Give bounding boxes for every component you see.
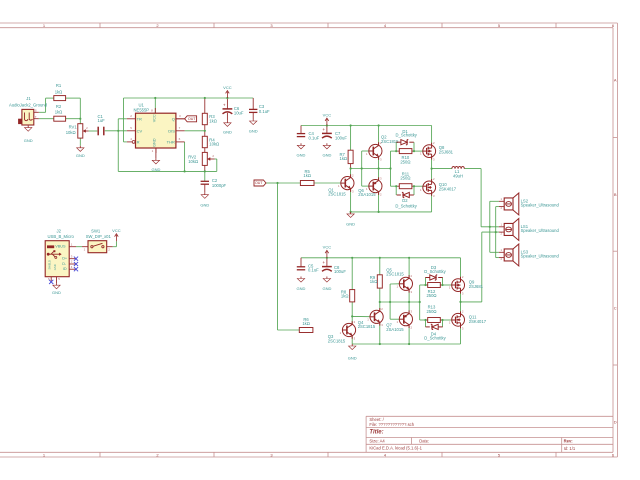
svg-text:D_Schottky: D_Schottky [424,269,446,274]
ground [24,126,33,144]
svg-text:J1: J1 [26,96,31,101]
wire [39,98,54,112]
power VCC [223,85,232,98]
wire [252,98,254,109]
svg-text:AudioJack2_Ground: AudioJack2_Ground [9,103,48,108]
svg-text:GND: GND [297,152,306,157]
wire [184,142,186,172]
resistor R1 [54,83,66,101]
svg-text:R1: R1 [56,83,62,88]
svg-text:D_Schottky: D_Schottky [395,133,417,138]
svg-text:NE555P: NE555P [134,108,150,113]
svg-text:+: + [322,127,325,132]
power VCC [112,228,121,241]
svg-text:GND: GND [297,286,306,291]
resistor R4 [202,136,219,147]
svg-text:1kΩ: 1kΩ [55,90,63,95]
svg-text:GND: GND [346,222,355,227]
svg-text:+: + [322,260,325,265]
junction [361,167,363,169]
wire [379,323,381,344]
power VCC [323,112,332,125]
junction [326,257,328,259]
wire [278,183,300,330]
wire [408,326,410,344]
junction [326,124,328,126]
wire [154,98,156,113]
wire [89,130,98,132]
junction [204,97,206,99]
resistor R6 [299,317,313,333]
junction [154,97,156,99]
speaker LS2 Speaker_Ultrasound [499,193,560,215]
capacitor C7 [322,127,347,140]
wire [378,126,380,145]
wire [396,142,414,151]
wire [426,278,443,286]
svg-text:Date:: Date: [419,439,429,444]
svg-text:250Ω: 250Ω [400,159,410,164]
wire [414,185,423,187]
wire [185,130,205,132]
transistor Q9 2SJ681 [449,275,484,296]
wire [124,98,127,142]
no-connect [74,257,78,261]
ground [151,158,160,172]
wire: speaker bus A [490,201,499,252]
wire [431,126,433,145]
svg-text:OUT: OUT [255,181,263,185]
resistor R9 [370,275,383,288]
svg-text:250Ω: 250Ω [400,176,410,181]
svg-text:GND: GND [322,286,331,291]
ground [297,143,306,157]
power VCC [323,245,332,258]
wire [117,119,119,172]
junction [408,301,410,303]
svg-text:250Ω: 250Ω [426,293,436,298]
wire [351,337,353,344]
svg-text:ID: ID [63,267,67,271]
speaker LS1 Speaker_Ultrasound [499,218,560,240]
svg-text:VCC: VCC [112,228,121,233]
junction [350,167,352,169]
wire [66,118,81,120]
svg-text:GND: GND [151,167,160,172]
svg-text:2SC1815: 2SC1815 [381,139,399,144]
wire: drain tie lower [460,292,462,314]
svg-text:GND: GND [52,290,61,295]
wire: bottom feedback line [118,170,217,172]
wire: D/R bus upper [391,151,397,186]
ground [223,121,232,135]
svg-text:Title:: Title: [369,429,383,435]
svg-text:GND: GND [53,264,57,270]
wire [460,258,462,279]
svg-text:2SK4017: 2SK4017 [439,187,457,192]
wire: base bus [362,151,369,186]
svg-text:OUT: OUT [188,117,196,121]
svg-text:1kΩ: 1kΩ [340,156,348,161]
junction [276,182,278,184]
svg-text:D_Schottky: D_Schottky [395,203,417,208]
wire [414,150,423,152]
svg-text:0.1uF: 0.1uF [259,109,270,114]
svg-text:250Ω: 250Ω [426,309,436,314]
resistor R7 [340,150,354,163]
svg-text:Rev:: Rev: [564,438,573,443]
junction [378,167,380,169]
wire: drain tie upper [431,158,433,181]
svg-text:TR: TR [137,116,142,121]
wire [326,126,328,134]
wire [66,98,81,119]
junction [379,257,381,259]
resistor R5 [300,169,314,186]
svg-text:GND: GND [24,138,33,143]
wire [460,326,462,344]
svg-text:10kΩ: 10kΩ [188,159,198,164]
svg-text:2SJ681: 2SJ681 [469,284,484,289]
wire [350,189,352,212]
svg-text:1kΩ: 1kΩ [370,279,378,284]
junction [408,257,410,259]
svg-text:VBUS: VBUS [55,245,66,249]
junction [395,150,397,152]
wire [204,148,206,153]
wire [351,258,353,290]
ground [200,193,209,208]
junction [350,211,352,213]
ground [346,212,355,227]
svg-text:U1: U1 [139,102,145,107]
wire [378,192,380,212]
wire: node line lower [380,301,420,303]
svg-text:KiCad E.D.A. kicad (5.1.6)-1: KiCad E.D.A. kicad (5.1.6)-1 [369,445,422,450]
junction [413,150,415,152]
junction [350,124,352,126]
no-connect [74,267,78,271]
switch SW1 SW_DIP_x01 [82,228,113,252]
wire [396,150,414,152]
junction [204,170,206,172]
ground [322,143,331,157]
wire [432,168,452,170]
transistor Q8 2SJ681 [420,141,454,162]
resistor R12 [426,283,440,299]
resistor R10 [399,149,412,165]
wire [118,118,127,120]
junction [389,301,391,303]
wire [351,316,353,323]
svg-text:B: B [614,192,617,197]
wire [350,164,352,169]
svg-text:2SC1815: 2SC1815 [386,272,404,277]
wire: VCC rail 555 [124,97,254,99]
wire [155,148,157,158]
svg-text:SHIELD: SHIELD [47,260,51,269]
svg-text:VCC: VCC [223,85,232,90]
svg-text:Size: A4: Size: A4 [369,439,385,444]
wire [379,258,381,275]
wire: GND rail upper amp [351,211,432,213]
wire [396,185,414,187]
wire [350,169,352,178]
junction [441,319,443,321]
svg-text:Q: Q [172,116,175,121]
junction [408,343,410,345]
wire [352,315,370,317]
ground [52,283,61,295]
svg-text:VCC: VCC [323,112,332,117]
svg-text:10uF: 10uF [234,110,244,115]
svg-text:Speaker_Ultrasound: Speaker_Ultrasound [521,228,560,233]
junction [489,226,491,228]
wire [266,182,278,184]
wire [176,118,185,120]
wire: VCC rail lower amp [301,257,461,259]
junction [79,118,81,120]
svg-text:A: A [614,78,617,83]
svg-text:File: ????????????.sch: File: ????????????.sch [369,422,414,427]
ground [249,119,258,134]
wire [300,126,302,134]
svg-text:SW1: SW1 [91,228,101,233]
junction [378,124,380,126]
wire [351,302,353,317]
connector J2 USB_B_Micro [45,228,76,283]
svg-text:49uH: 49uH [453,174,463,179]
resistor R2 [54,104,66,121]
wire [226,113,228,121]
speaker LS3 Speaker_Ultrasound [499,244,560,266]
wire [76,246,82,248]
junction [379,343,381,345]
svg-text:S: S [35,109,37,113]
svg-text:Speaker_Ultrasound: Speaker_Ultrasound [521,203,560,208]
junction [424,284,426,286]
junction [378,211,380,213]
IC U1 NE555P [127,102,185,153]
wire: D/R bus lower [420,285,426,320]
svg-text:GND: GND [223,129,232,134]
transistor Q4 2SC1815 [358,307,384,329]
capacitor C6 [223,102,244,115]
junction [117,130,119,132]
junction [441,284,443,286]
transistor Q6 2SA1015 [358,176,382,197]
svg-text:GND: GND [153,138,157,147]
junction [431,168,433,170]
svg-text:DIS: DIS [168,128,175,133]
resistor R8 [341,289,355,302]
svg-text:CV: CV [137,128,143,133]
wire [39,118,54,120]
resistor R13 [426,305,440,323]
transistor Q11 2SK4017 [449,310,487,331]
junction [226,97,228,99]
wire: emitter tie lower [408,290,410,312]
svg-text:1kΩ: 1kΩ [209,118,217,123]
global label OUT [185,116,197,122]
transistor Q5 2SC1815 [386,268,412,295]
wire [326,258,328,267]
svg-text:1kΩ: 1kΩ [55,110,63,115]
junction [379,301,381,303]
junction [459,301,461,303]
svg-text:C: C [614,306,617,311]
wire [204,98,206,113]
junction [389,167,391,169]
svg-text:2SA1015: 2SA1015 [386,327,404,332]
diode D3 D_Schottky [424,265,446,280]
svg-text:2SA1015: 2SA1015 [358,192,376,197]
capacitor C3 [249,104,270,114]
potentiometer RV1 [66,124,89,138]
wire [79,119,81,124]
svg-text:Speaker_Ultrasound: Speaker_Ultrasound [521,254,560,259]
svg-text:100uF: 100uF [334,269,346,274]
wire: feed to speakers lower [461,232,499,302]
wire [314,182,341,184]
wire [431,194,433,212]
wire: VCC rail upper amp [301,125,432,127]
capacitor C2 [201,178,227,188]
svg-text:1kΩ: 1kΩ [341,293,349,298]
svg-text:VCC: VCC [153,114,157,122]
svg-text:1kΩ: 1kΩ [303,173,311,178]
wire [408,258,410,277]
transistor Q3 2SC1815 [328,320,356,343]
wire [105,130,127,132]
wire [204,184,206,193]
no-connect [49,280,53,284]
wire [426,284,443,286]
wire: base bus lower [390,284,399,319]
junction [204,130,206,132]
wire [350,126,352,151]
inductor L1 [452,166,464,178]
junction [419,301,421,303]
svg-text:10kΩ: 10kΩ [66,130,76,135]
resistor R11 [399,171,412,188]
svg-text:2SC1815: 2SC1815 [358,324,376,329]
wire [379,288,381,302]
svg-text:0.1uF: 0.1uF [308,268,319,273]
wire [113,241,117,247]
wire [443,319,452,321]
junction [413,185,415,187]
svg-text:GND: GND [322,152,331,157]
wire: node line [351,168,391,170]
wire [464,168,481,170]
wire: feed to speakers upper [481,169,499,227]
wire: GND rail lower amp [352,343,460,345]
diode D2 D_Schottky [395,192,417,208]
wire [443,284,452,286]
transistor Q7 2SA1015 [386,309,412,331]
wire [300,258,302,267]
wire [379,302,381,310]
ground [322,277,331,292]
wire [215,159,217,171]
ground [348,344,357,361]
global label OUT [254,180,266,186]
wire [396,186,414,195]
wire: emitter tie [378,157,380,180]
capacitor C4 [297,131,320,140]
ground [297,277,306,292]
title block [366,416,613,452]
capacitor C5 [297,264,319,273]
svg-text:2SK4017: 2SK4017 [469,319,487,324]
svg-text:GND: GND [348,356,357,361]
svg-text:J2: J2 [56,228,61,233]
junction [424,319,426,321]
wire [278,182,301,184]
svg-text:D_Schottky: D_Schottky [424,336,446,341]
ground [76,146,85,158]
transistor Q10 2SK4017 [420,177,457,198]
no-connect [74,262,78,266]
svg-text:USB_B_Micro: USB_B_Micro [48,234,75,239]
wire [204,125,206,137]
svg-text:GND: GND [76,153,85,158]
svg-text:SW_DIP_x01: SW_DIP_x01 [86,234,112,239]
wire: speaker bus B [496,207,499,258]
svg-text:VCC: VCC [323,245,332,250]
wire [426,319,443,321]
svg-text:D+: D+ [62,257,68,261]
wire [226,98,228,109]
capacitor C8 [322,260,346,274]
svg-text:1000pF: 1000pF [212,183,227,188]
svg-text:D2: D2 [402,198,408,203]
junction [495,231,497,233]
resistor R3 [202,113,217,124]
svg-text:T: T [35,115,37,119]
capacitor C1 [98,114,106,136]
svg-text:1uF: 1uF [98,118,106,123]
svg-text:+: + [223,102,226,107]
svg-text:GND: GND [200,202,209,207]
svg-text:0.1uF: 0.1uF [309,135,320,140]
transistor Q2 2SC1815 [366,135,399,162]
svg-text:10kΩ: 10kΩ [209,142,219,147]
junction [351,315,353,317]
wire [426,320,443,327]
svg-text:100uF: 100uF [335,135,347,140]
connector J1 AudioJack2_Ground [9,96,48,126]
svg-text:THR: THR [167,139,175,144]
svg-text:2SC1815: 2SC1815 [328,338,346,343]
svg-text:R: R [137,139,140,144]
potentiometer RV2 [188,152,214,165]
wire [79,138,81,146]
svg-text:2SC1815: 2SC1815 [328,192,346,197]
junction [395,185,397,187]
junction [351,257,353,259]
diode D4 D_Schottky [424,324,446,340]
svg-text:R2: R2 [56,104,62,109]
svg-text:GND: GND [249,129,258,134]
junction [184,170,186,172]
svg-text:D: D [614,419,617,424]
wire [252,112,254,119]
transistor Q1 2SC1815 [328,173,354,196]
svg-text:Id: 1/1: Id: 1/1 [564,446,576,451]
diode D1 D_Schottky [395,129,417,145]
